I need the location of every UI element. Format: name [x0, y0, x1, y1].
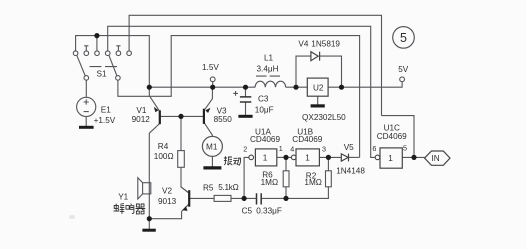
svg-text:1MΩ: 1MΩ [304, 178, 322, 187]
svg-text:R4: R4 [158, 142, 169, 151]
inductor L1 [255, 81, 286, 87]
svg-text:C5: C5 [242, 206, 253, 215]
svg-text:V4: V4 [298, 39, 308, 48]
wire 1.5V terminal stub [212, 82, 214, 88]
resistor R2 [326, 171, 332, 187]
speaker Y1 [138, 178, 151, 199]
svg-text:1N4148: 1N4148 [336, 167, 365, 176]
inverter U1A [255, 149, 276, 166]
svg-text:6: 6 [372, 144, 376, 153]
transistor V1 [149, 97, 160, 134]
switch S1 pole2 blade [109, 55, 117, 76]
wire C5 node up to U1A input [244, 157, 249, 198]
ground M1 [203, 166, 221, 169]
ground speaker V2 [142, 229, 155, 232]
wire C3 top stub [245, 87, 247, 97]
svg-text:1: 1 [305, 153, 310, 162]
wire R6 bottom stub [285, 187, 287, 199]
inverter U1C [380, 148, 402, 168]
ground C3 [238, 115, 252, 118]
svg-text:4: 4 [290, 145, 294, 154]
switch S1 linkage dashed [90, 66, 118, 68]
wire motor to ground [211, 156, 213, 166]
svg-text:5: 5 [400, 31, 407, 45]
svg-text:5.1kΩ: 5.1kΩ [218, 183, 238, 192]
wire V3 collector to motor [211, 135, 213, 137]
svg-text:2: 2 [243, 145, 247, 154]
svg-text:100Ω: 100Ω [154, 152, 174, 161]
svg-text:1: 1 [388, 154, 393, 163]
svg-text:9013: 9013 [158, 197, 177, 206]
label 振动 vibration (drawn strokes) [224, 156, 241, 165]
svg-text:M1: M1 [206, 142, 218, 151]
svg-text:1.5V: 1.5V [202, 63, 219, 72]
wire top line from S1 contact 6 to right vertical [129, 15, 381, 115]
wire V2 base to R5 [189, 197, 214, 199]
svg-text:+1.5V: +1.5V [94, 116, 116, 125]
IC U2 box [307, 78, 328, 96]
diode V5 [341, 154, 348, 162]
wire C5 to R6 R2 bottom bus [261, 187, 328, 199]
wire E1 to S1 pole1 [85, 80, 87, 97]
wire V1 collector to speaker and ground [149, 133, 181, 219]
svg-text:Y1: Y1 [118, 193, 128, 202]
svg-text:1: 1 [263, 153, 268, 162]
svg-text:5V: 5V [398, 65, 409, 74]
svg-text:CD4069: CD4069 [250, 135, 280, 144]
transistor V2 [181, 187, 189, 211]
svg-text:1: 1 [279, 144, 283, 153]
switch S1 pole1 blade [77, 55, 86, 76]
svg-text:CD4069: CD4069 [377, 132, 407, 141]
wire feedback to U1C output [382, 116, 415, 158]
wire R5 to C5 node [231, 197, 257, 199]
wire U1B output to V5 anode [319, 156, 341, 158]
wire second line from S1 contact 4 down to U1C input [108, 26, 376, 157]
wire U2 ground stub [317, 96, 319, 104]
ground U2 [311, 104, 325, 107]
svg-text:1MΩ: 1MΩ [261, 178, 279, 187]
wire U1A output to U1B input [277, 156, 292, 158]
diode V4 [311, 52, 320, 61]
svg-text:V5: V5 [344, 143, 354, 152]
resistor R5 [214, 195, 231, 201]
wire stub S1 contact 2 open [84, 46, 88, 51]
svg-text:QX2302L50: QX2302L50 [302, 113, 346, 122]
capacitor C5 [257, 193, 262, 204]
faint scan smudge [69, 215, 75, 219]
transistor V3 [204, 99, 213, 135]
wire ground stub under speaker node [148, 219, 150, 229]
terminal 1.5V [210, 77, 215, 82]
inverter U1B [296, 149, 319, 166]
svg-text:3.4μH: 3.4μH [257, 64, 279, 73]
svg-text:E1: E1 [101, 105, 111, 114]
svg-text:U2: U2 [313, 83, 324, 92]
wire C3 bottom to ground [245, 102, 247, 115]
wire stub S1 contact 3 [96, 36, 98, 51]
wire third line from S1 contact 1 to V1 emitter rail [76, 36, 150, 97]
wire V4 bypass loop [296, 56, 342, 87]
S1 pole contact circles [84, 76, 89, 81]
svg-text:8550: 8550 [214, 115, 233, 124]
wire V3 emitter to rail [211, 87, 213, 99]
svg-text:C3: C3 [258, 94, 269, 103]
svg-text:IN: IN [432, 154, 440, 163]
wire stub S1 contact 5 open [116, 46, 120, 51]
battery E1 [77, 97, 96, 116]
wire R6 top to U1A output [285, 157, 287, 170]
wire R4 top to base node [180, 116, 182, 150]
wire S1 pole2 to V5 cathode [118, 36, 360, 158]
svg-text:1N5819: 1N5819 [311, 39, 340, 48]
svg-text:R5: R5 [203, 183, 214, 192]
svg-text:5: 5 [403, 143, 407, 152]
wire V5 cathode [349, 156, 360, 158]
node IN hexagon flag [425, 151, 450, 165]
resistor R4 [178, 151, 185, 168]
svg-text:10μF: 10μF [255, 106, 274, 115]
wire 1.5V rail [149, 82, 402, 88]
wire R4 bottom to V2 collector [181, 167, 189, 193]
ground E1 [79, 126, 94, 129]
svg-text:S1: S1 [97, 70, 107, 79]
svg-text:0.33μF: 0.33μF [256, 206, 282, 215]
capacitor C3 polarized [240, 97, 251, 102]
wire E1 negative to ground [85, 117, 87, 127]
wire V1 base to V3 base [160, 115, 204, 117]
S1 contact circles row [73, 51, 404, 82]
svg-text:9012: 9012 [132, 115, 151, 124]
resistor R6 [283, 171, 289, 187]
svg-text:L1: L1 [264, 53, 274, 62]
svg-text:3: 3 [322, 145, 326, 154]
circled figure number 5 [393, 27, 415, 49]
wire R2 top stub [327, 157, 329, 170]
motor M1 [202, 136, 222, 156]
svg-text:CD4069: CD4069 [292, 135, 322, 144]
svg-text:V1: V1 [136, 106, 146, 115]
terminal 5V [400, 77, 405, 82]
wire U1C output to IN [402, 156, 424, 158]
svg-text:V2: V2 [162, 187, 172, 196]
label 蜂鸣器 buzzer (drawn strokes) [114, 204, 146, 214]
